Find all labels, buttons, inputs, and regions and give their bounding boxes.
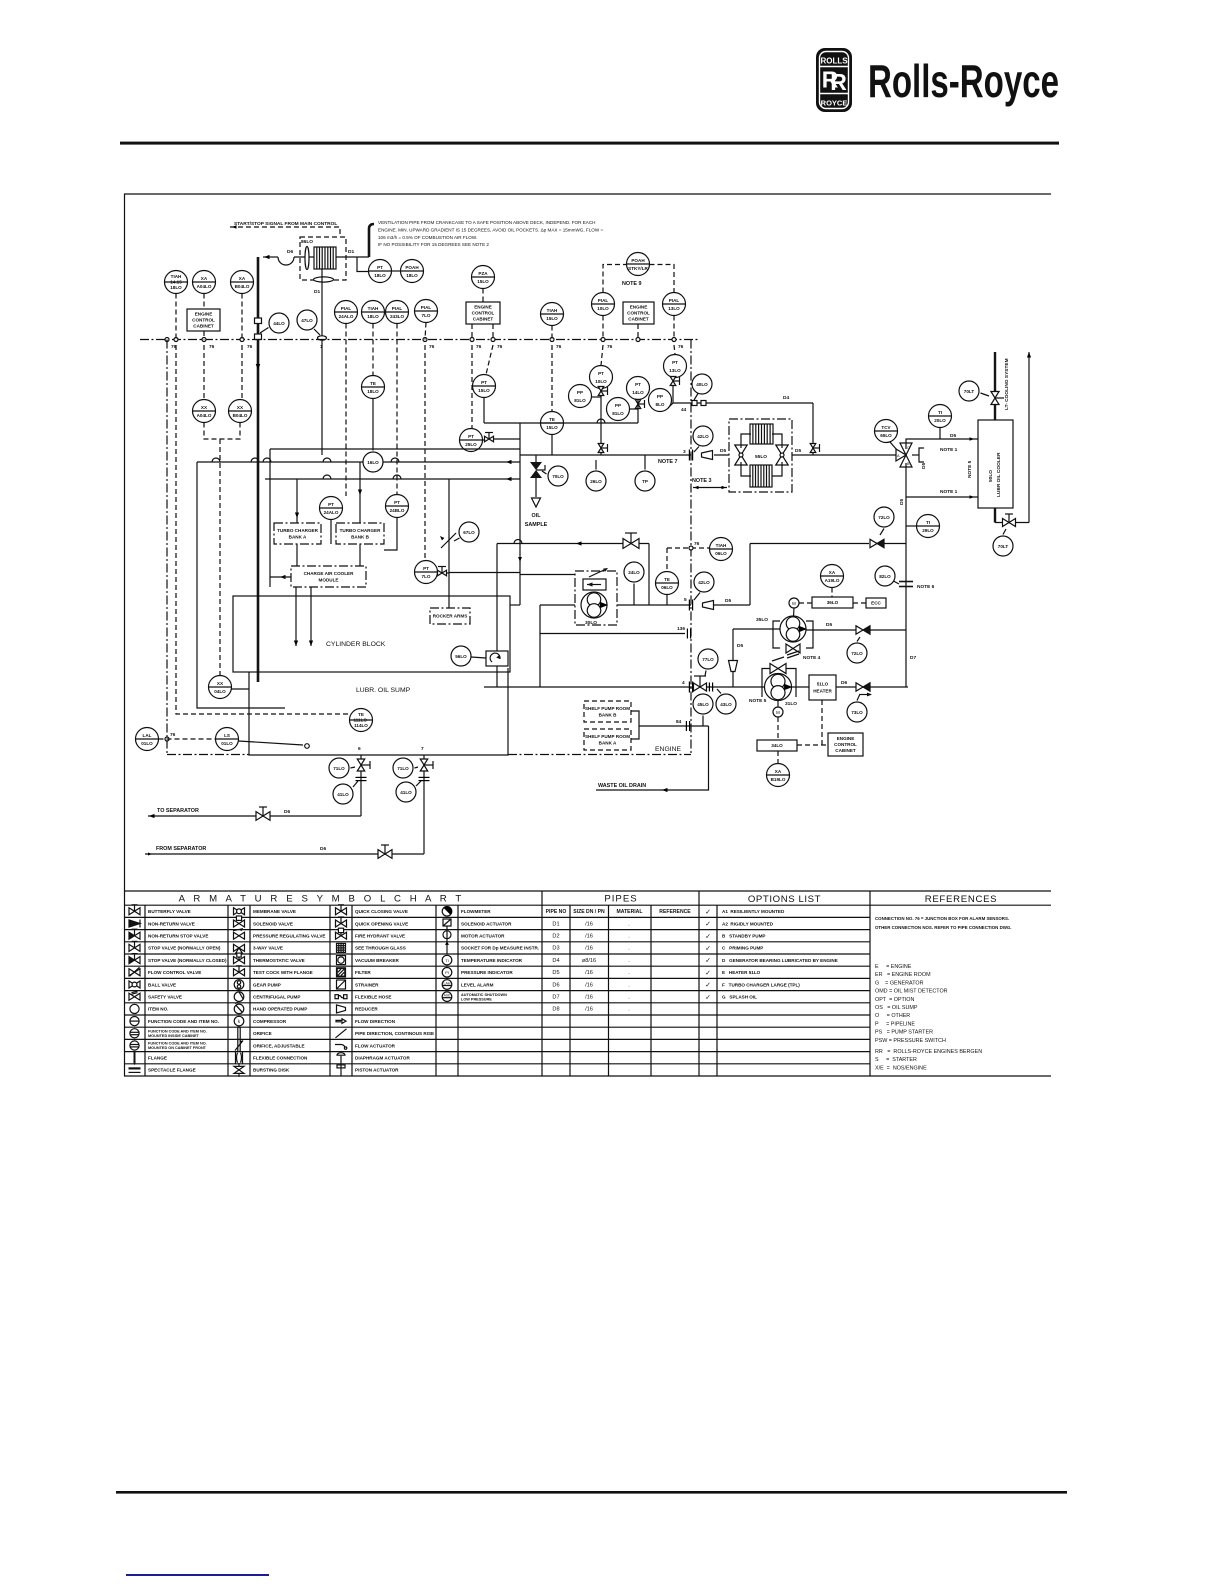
svg-text:BANK B: BANK B bbox=[351, 534, 370, 539]
main supply line bbox=[520, 454, 691, 456]
svg-text:TCV: TCV bbox=[881, 425, 891, 430]
engine boundary bottom right bbox=[508, 754, 691, 756]
instrument item 77LO bbox=[698, 649, 718, 669]
valve6 stem bbox=[361, 764, 370, 766]
svg-text:CYLINDER BLOCK: CYLINDER BLOCK bbox=[326, 641, 386, 648]
svg-text:CONTROL: CONTROL bbox=[834, 742, 857, 747]
svg-text:C PRIMING PUMP: C PRIMING PUMP bbox=[722, 946, 763, 951]
instrument item 45LO bbox=[693, 694, 713, 714]
svg-text:76: 76 bbox=[170, 732, 176, 738]
24LO stub bbox=[633, 584, 635, 606]
svg-text:STRAINER: STRAINER bbox=[355, 982, 379, 987]
40LO leader bbox=[694, 394, 698, 401]
34LO to cabinet dashed bbox=[797, 744, 828, 746]
PT10 drop bbox=[600, 396, 602, 456]
pipe crossing manifold2 jump b bbox=[393, 475, 401, 479]
svg-text:OMD = OIL MIST DETECTOR: OMD = OIL MIST DETECTOR bbox=[875, 989, 948, 995]
instrument XA A19LO bbox=[821, 565, 844, 588]
PT13 dashed bbox=[674, 345, 675, 355]
charge air feed drop bbox=[269, 449, 271, 587]
svg-text:36LO: 36LO bbox=[827, 600, 839, 605]
cooler drain run bbox=[995, 522, 1029, 524]
instrument TI 70LT top bbox=[959, 381, 979, 401]
connection node junction 76 k bbox=[672, 338, 676, 342]
standby suction top run bbox=[750, 543, 869, 545]
svg-text:D5: D5 bbox=[826, 622, 832, 628]
instrument item 43LO bbox=[716, 694, 736, 714]
valve 55LO outlet valve bbox=[776, 445, 788, 465]
82LO leader bbox=[894, 581, 900, 584]
svg-text:ROCKER ARMS: ROCKER ARMS bbox=[433, 614, 468, 619]
svg-text:START/STOP SIGNAL FROM MAIN CO: START/STOP SIGNAL FROM MAIN CONTROL bbox=[234, 221, 337, 227]
55LO top loop a bbox=[741, 434, 751, 448]
svg-text:D6: D6 bbox=[552, 982, 559, 988]
svg-text:ITEM NO.: ITEM NO. bbox=[148, 1007, 168, 1012]
svg-text:106 m3/h = 0.5% OF COMBUSTION: 106 m3/h = 0.5% OF COMBUSTION AIR FLOW. bbox=[378, 235, 477, 240]
motor symbol pump31 bbox=[773, 707, 783, 717]
svg-text:ENGINE: ENGINE bbox=[655, 746, 682, 753]
svg-text:PT: PT bbox=[635, 382, 641, 387]
three-way valve TCV 65LO bbox=[896, 443, 912, 467]
line to pump35 riser bbox=[714, 604, 750, 606]
pipe crossing return jump bbox=[514, 540, 522, 544]
svg-text:PT: PT bbox=[328, 502, 334, 507]
svg-text:7: 7 bbox=[421, 746, 424, 752]
svg-text:/16: /16 bbox=[585, 921, 593, 927]
svg-text:F TURBO CHARGER LARGE (TPL): F TURBO CHARGER LARGE (TPL) bbox=[722, 982, 800, 987]
flange boundary connector 136 bbox=[687, 629, 690, 639]
svg-text:LOW PRESSURE: LOW PRESSURE bbox=[461, 997, 492, 1001]
sensor rail bbox=[484, 422, 638, 424]
pipe crossing PT10 crossing bbox=[597, 419, 605, 423]
70LO leader bbox=[542, 471, 547, 474]
pump35 relief valve bbox=[786, 644, 800, 658]
svg-text:PZA: PZA bbox=[478, 271, 488, 276]
arrow note3 arrow right bbox=[722, 486, 727, 489]
svg-text:06LO: 06LO bbox=[715, 551, 727, 556]
svg-text:REFERENCE: REFERENCE bbox=[659, 909, 691, 915]
svg-text:CABINET: CABINET bbox=[628, 317, 649, 322]
svg-text:MATERIAL: MATERIAL bbox=[617, 909, 643, 915]
instrument item 44LO bbox=[269, 313, 289, 333]
svg-text:D6: D6 bbox=[320, 846, 326, 852]
svg-text:✓: ✓ bbox=[705, 921, 711, 928]
PIAL10 drop bbox=[602, 316, 604, 340]
svg-text:POAH: POAH bbox=[405, 265, 419, 270]
svg-text:PIAL: PIAL bbox=[392, 306, 403, 311]
77LO leader bbox=[705, 671, 706, 677]
TP stub bbox=[644, 455, 646, 470]
connection node junction 76 a bbox=[165, 338, 169, 342]
instrument XA B19LO bbox=[767, 764, 790, 787]
svg-text:CONNECTION NO. 76 = JUNCTI: CONNECTION NO. 76 = JUNCTION BOX FOR ALA… bbox=[875, 916, 1009, 921]
motor dashed link bbox=[799, 602, 812, 604]
priming pump module bbox=[575, 571, 617, 625]
svg-text:13LO: 13LO bbox=[669, 368, 681, 373]
valve6 stem bar bbox=[369, 761, 371, 769]
instrument POAH 18LO bbox=[401, 260, 424, 283]
svg-text:TP: TP bbox=[642, 479, 648, 484]
valve PT7 test cock bbox=[438, 567, 447, 576]
instrument PT 24BLO bbox=[386, 495, 409, 518]
svg-text:IF NO POSSIBILITY FOR 15 DEGR: IF NO POSSIBILITY FOR 15 DEGREES SEE NOT… bbox=[378, 242, 489, 247]
PT25 link bbox=[483, 439, 485, 441]
PT15 dashed bbox=[486, 345, 493, 375]
PIAL24A dashed drop bbox=[345, 324, 347, 497]
connection node junction 76 g bbox=[491, 338, 495, 342]
svg-text:✓: ✓ bbox=[705, 958, 711, 965]
svg-text:LUBR OIL COOLER: LUBR OIL COOLER bbox=[996, 452, 1002, 497]
svg-text:M: M bbox=[792, 601, 796, 606]
Rolls-Royce badge logo bbox=[816, 48, 852, 112]
svg-text:01LO: 01LO bbox=[141, 741, 153, 746]
arrow note3 arrow left bbox=[694, 486, 699, 489]
cooler top pipe thick bbox=[994, 352, 996, 392]
svg-text:O = OTHER: O = OTHER bbox=[875, 1013, 910, 1019]
arrow downcomer arrow bbox=[256, 364, 261, 370]
svg-text:A1 RESILIENTLY MOUNTED: A1 RESILIENTLY MOUNTED bbox=[722, 909, 785, 914]
71LO b leader bbox=[415, 767, 419, 768]
table outer top line bbox=[124, 890, 1051, 892]
TCV top out bbox=[906, 439, 978, 449]
svg-text:86LO: 86LO bbox=[301, 239, 313, 245]
73LO leader bbox=[857, 694, 860, 701]
arrow cac feed arrow bbox=[280, 575, 286, 579]
instrument item 42LO b bbox=[694, 572, 714, 592]
svg-text:NOTE 9: NOTE 9 bbox=[622, 281, 641, 287]
heat exchanger element crankcase breather element 86LO bbox=[314, 247, 336, 269]
instrument item 24LO bbox=[624, 562, 644, 582]
svg-text:/16: /16 bbox=[585, 970, 593, 976]
TIAH06 dashed bbox=[667, 547, 710, 549]
svg-text:PT: PT bbox=[394, 500, 400, 505]
svg-text:BANK B: BANK B bbox=[599, 712, 618, 717]
svg-text:POAH: POAH bbox=[631, 258, 645, 263]
return line mid bbox=[497, 543, 649, 545]
svg-text:ENGINE: ENGINE bbox=[837, 736, 855, 741]
43LO leader bbox=[717, 689, 721, 694]
TE15 dashed bbox=[551, 345, 553, 412]
svg-text:BANK A: BANK A bbox=[599, 740, 617, 745]
svg-text:/16: /16 bbox=[585, 946, 593, 952]
svg-text:CHARGE AIR COOLER: CHARGE AIR COOLER bbox=[304, 571, 355, 576]
pump35 riser bbox=[749, 544, 751, 606]
pump35 frame r bbox=[806, 621, 813, 648]
svg-text:01LO: 01LO bbox=[221, 741, 233, 746]
svg-text:ø8/16: ø8/16 bbox=[582, 958, 596, 964]
pump31 to 34LO dashed bbox=[777, 717, 779, 740]
svg-text:FIRE HYDRANT VALVE: FIRE HYDRANT VALVE bbox=[355, 934, 405, 939]
to separator line bbox=[148, 815, 361, 817]
svg-text:C: C bbox=[907, 446, 910, 450]
check valve heater check bbox=[856, 683, 870, 691]
thermostatic valve module 55LO bbox=[729, 419, 792, 492]
svg-text:TO SEPARATOR: TO SEPARATOR bbox=[157, 808, 199, 814]
svg-text:82LO: 82LO bbox=[879, 574, 891, 579]
svg-text:PIPE NO: PIPE NO bbox=[546, 909, 567, 915]
svg-text:✓: ✓ bbox=[705, 970, 711, 977]
svg-text:BANK A: BANK A bbox=[289, 534, 307, 539]
svg-text:WASTE OIL DRAIN: WASTE OIL DRAIN bbox=[598, 783, 646, 789]
47LO leader bbox=[314, 329, 320, 335]
56LO down to sump bbox=[496, 666, 498, 687]
instrument item 73LO bbox=[847, 702, 867, 722]
reducer reducer 5 bbox=[703, 601, 714, 610]
svg-text:PSW = PRESSURE SWITCH: PSW = PRESSURE SWITCH bbox=[875, 1038, 946, 1044]
TIAH long drop to TE111 bbox=[176, 345, 349, 714]
svg-text:D2: D2 bbox=[552, 934, 559, 940]
return to main bbox=[884, 543, 906, 545]
svg-text:25LO: 25LO bbox=[465, 442, 477, 447]
PT7 link bbox=[438, 572, 450, 574]
34LO to XA dashed bbox=[777, 751, 779, 764]
instrument item 71LO b bbox=[393, 758, 413, 778]
line 136 bbox=[540, 633, 685, 635]
instrument PT 10LO bbox=[590, 366, 613, 389]
reducer reducer 3 bbox=[702, 451, 713, 460]
return manifold lower bbox=[265, 478, 520, 480]
regulator spill line bbox=[520, 575, 612, 580]
flange boundary connector 5 bbox=[689, 600, 692, 611]
orifice flange 44 b bbox=[701, 401, 706, 406]
charge air cooler module bbox=[291, 566, 366, 587]
TE06 dashed up bbox=[666, 548, 668, 572]
svg-text:70LO: 70LO bbox=[552, 474, 564, 479]
svg-text:D5: D5 bbox=[950, 433, 956, 439]
throttle bar bbox=[625, 532, 637, 534]
PT25 to box bbox=[494, 438, 521, 440]
XA A drop bbox=[203, 294, 205, 310]
svg-text:31LO: 31LO bbox=[785, 701, 797, 707]
capped test connection bbox=[919, 448, 924, 462]
svg-text:15LO: 15LO bbox=[546, 425, 558, 430]
instrument item 42LO bbox=[693, 426, 713, 446]
svg-text:THERMOSTATIC VALVE: THERMOSTATIC VALVE bbox=[253, 958, 305, 963]
instrument item 41LO a bbox=[333, 784, 353, 804]
svg-text:PI: PI bbox=[445, 970, 449, 975]
svg-text:TE: TE bbox=[549, 417, 555, 422]
svg-text:SOLENOID ACTUATOR: SOLENOID ACTUATOR bbox=[461, 921, 512, 926]
svg-text:24BLO: 24BLO bbox=[390, 508, 405, 513]
rocker arms feed bbox=[448, 479, 450, 608]
cac drain a bbox=[295, 587, 297, 646]
svg-text:NOTE 5: NOTE 5 bbox=[749, 698, 767, 704]
svg-text:TE: TE bbox=[358, 712, 364, 717]
instrument LS 01LO bbox=[216, 728, 239, 751]
rocker supply run bbox=[449, 572, 520, 574]
svg-text:136: 136 bbox=[677, 626, 685, 632]
svg-text:ASD: ASD bbox=[444, 994, 451, 998]
flange spectacle flange 6 bbox=[356, 777, 367, 780]
svg-text:BURSTING DISK: BURSTING DISK bbox=[253, 1068, 290, 1073]
rocker arms bbox=[430, 608, 470, 624]
svg-text:ENGINE: ENGINE bbox=[474, 305, 492, 310]
svg-text:VENTILATION PIPE FROM CRANKCAS: VENTILATION PIPE FROM CRANKCASE TO A SAF… bbox=[378, 220, 595, 225]
drain 6 pipe bbox=[360, 755, 362, 816]
svg-text:47LO: 47LO bbox=[301, 318, 313, 323]
PP8 stub bbox=[668, 403, 673, 408]
instrument TIAH 06LO bbox=[710, 538, 733, 561]
svg-text:7LO: 7LO bbox=[422, 313, 431, 318]
block edge tie bbox=[510, 604, 520, 606]
return downpipe bbox=[197, 462, 285, 708]
svg-text:QUICK CLOSING VALVE: QUICK CLOSING VALVE bbox=[355, 909, 408, 914]
svg-text:NOTE 1: NOTE 1 bbox=[940, 447, 958, 453]
svg-text:76: 76 bbox=[429, 344, 435, 350]
turboA feed bbox=[296, 479, 298, 523]
footer link line bbox=[126, 1574, 269, 1576]
pump35 check out bbox=[870, 629, 906, 631]
svg-text:P = PIPELINE: P = PIPELINE bbox=[875, 1021, 915, 1027]
svg-text:FLEXIBLE CONNECTION: FLEXIBLE CONNECTION bbox=[253, 1056, 308, 1061]
70LT top leader bbox=[981, 393, 990, 396]
svg-text:06LO: 06LO bbox=[661, 585, 673, 590]
svg-text:15LO: 15LO bbox=[546, 316, 558, 321]
41LO a leader bbox=[353, 781, 358, 787]
svg-text:NOTE 6: NOTE 6 bbox=[917, 584, 935, 590]
pipe crossing manifold2 jump a bbox=[323, 475, 331, 479]
svg-text:111LO-: 111LO- bbox=[353, 717, 369, 722]
svg-text:PP: PP bbox=[657, 394, 663, 399]
XX04 link bbox=[232, 688, 250, 690]
svg-text:A19LO: A19LO bbox=[825, 578, 840, 583]
svg-text:TIAH: TIAH bbox=[547, 308, 558, 313]
valve7 stem bbox=[424, 764, 433, 766]
valve separator suction valve bbox=[256, 807, 270, 820]
svg-text:41LO: 41LO bbox=[400, 790, 412, 795]
instrument TE 06LO bbox=[656, 572, 679, 595]
svg-text:GEAR PUMP: GEAR PUMP bbox=[253, 982, 281, 987]
svg-text:NOTE 5: NOTE 5 bbox=[967, 460, 973, 478]
vent pipe left segment bbox=[263, 256, 278, 258]
TIAH drop bbox=[175, 294, 177, 340]
pipe crossing manifold1 jump b bbox=[251, 458, 259, 462]
TCV bottom run bbox=[905, 463, 907, 687]
svg-text:PRESSURE INDICATOR: PRESSURE INDICATOR bbox=[461, 970, 513, 975]
55LO to TCV bbox=[792, 454, 898, 456]
72LO b leader bbox=[857, 637, 860, 642]
valve7 stem bar bbox=[432, 761, 434, 769]
svg-text:NOTE 7: NOTE 7 bbox=[658, 459, 677, 465]
svg-text:114LO: 114LO bbox=[354, 723, 368, 728]
svg-text:TI: TI bbox=[926, 520, 930, 525]
level switch float link bbox=[239, 741, 310, 748]
starter 36LO bbox=[812, 597, 853, 608]
heat exchanger element 55LO element bottom bbox=[750, 465, 772, 487]
instrument TIAH 18LO bbox=[362, 301, 385, 324]
vent drain line D1 bbox=[321, 269, 323, 455]
svg-text:D5: D5 bbox=[921, 463, 927, 469]
svg-text:81LO: 81LO bbox=[612, 411, 624, 416]
svg-text:✓: ✓ bbox=[705, 994, 711, 1001]
svg-text:34LO: 34LO bbox=[771, 743, 783, 748]
arrow vent flow arrow bbox=[264, 255, 270, 259]
drawing frame top border bbox=[124, 193, 1051, 195]
svg-text:SAFETY VALVE: SAFETY VALVE bbox=[148, 995, 182, 1000]
56LO leader bbox=[471, 657, 486, 658]
connection node junction 76 m bbox=[689, 546, 693, 550]
svg-text:ROLLS: ROLLS bbox=[820, 57, 848, 66]
svg-text:24ALO: 24ALO bbox=[324, 510, 339, 515]
svg-text:D6: D6 bbox=[284, 809, 290, 815]
engine boundary vertical bbox=[690, 340, 692, 755]
svg-text:TURBO CHARGER: TURBO CHARGER bbox=[277, 528, 319, 533]
svg-text:73LO: 73LO bbox=[851, 710, 863, 715]
svg-text:50LO: 50LO bbox=[988, 470, 994, 482]
vent silencer oval bbox=[314, 277, 334, 282]
table vertical lines bbox=[145, 891, 870, 1076]
drawing frame left border bbox=[124, 194, 126, 1076]
pump stand-by pump 35LO bbox=[780, 616, 807, 642]
instrument item 67LO bbox=[459, 522, 479, 542]
vent pipe to PT18 bbox=[357, 257, 369, 272]
vent pipe to breather bbox=[294, 256, 314, 258]
arrow rocker supply arrow bbox=[518, 557, 522, 562]
engine boundary bottom left bbox=[167, 754, 249, 756]
svg-text:FUNCTION CODE AND ITEM NO.: FUNCTION CODE AND ITEM NO. bbox=[148, 1019, 219, 1024]
cabinet1 drop bbox=[203, 331, 205, 340]
svg-text:PT: PT bbox=[672, 360, 678, 365]
POAH dashed right leg bbox=[650, 265, 675, 293]
svg-text:TURBO CHARGER: TURBO CHARGER bbox=[340, 528, 382, 533]
svg-text:D5: D5 bbox=[795, 448, 801, 454]
svg-text:SHELF PUMP ROOM: SHELF PUMP ROOM bbox=[585, 706, 630, 711]
svg-text:OIL: OIL bbox=[532, 513, 542, 519]
svg-text:CONTROL: CONTROL bbox=[472, 311, 495, 316]
LT valve stem bbox=[995, 397, 1004, 399]
svg-text:D8: D8 bbox=[552, 1007, 559, 1013]
pump35 suction pipe bbox=[733, 628, 780, 630]
TI20 stub bbox=[939, 428, 941, 440]
cac drain b bbox=[310, 587, 312, 646]
svg-text:76: 76 bbox=[607, 344, 613, 350]
arrow from separator arrow bbox=[148, 852, 152, 855]
svg-text:LAH: LAH bbox=[444, 982, 451, 986]
pump35 frame bbox=[773, 621, 780, 648]
svg-text:D5: D5 bbox=[737, 643, 743, 649]
svg-text:43LO: 43LO bbox=[720, 702, 732, 707]
valve PT14 test cock bbox=[635, 400, 644, 409]
svg-text:D7: D7 bbox=[910, 655, 916, 661]
armature symbol chart cells bbox=[129, 905, 540, 1077]
svg-text:TIAH: TIAH bbox=[716, 543, 727, 548]
svg-text:70LT: 70LT bbox=[998, 544, 1009, 549]
svg-text:76: 76 bbox=[678, 344, 684, 350]
svg-text:X/E = NOS/ENGINE: X/E = NOS/ENGINE bbox=[875, 1065, 927, 1071]
svg-text:REDUCER: REDUCER bbox=[355, 1007, 378, 1012]
sample drop b bbox=[535, 478, 537, 497]
instrument XA A04LO bbox=[193, 271, 216, 294]
svg-text:PP: PP bbox=[577, 390, 583, 395]
svg-text:SHELF PUMP ROOM: SHELF PUMP ROOM bbox=[585, 734, 630, 739]
footer rule bbox=[116, 1491, 1067, 1494]
svg-text:✓: ✓ bbox=[705, 933, 711, 940]
valve PT10 test cock bbox=[598, 387, 607, 396]
svg-text:A04LO: A04LO bbox=[197, 413, 212, 418]
instrument PP 81LO a bbox=[569, 385, 592, 408]
svg-text:SOCKET FOR Dp MEASURE INSTR.: SOCKET FOR Dp MEASURE INSTR. bbox=[461, 946, 539, 951]
svg-text:OTHER CONNECTION NOS. REFER: OTHER CONNECTION NOS. REFER TO PIPE CONN… bbox=[875, 925, 1012, 930]
pump30 suction bbox=[540, 604, 581, 606]
valve D4 isolation valve bbox=[810, 444, 819, 453]
svg-text:FILTER: FILTER bbox=[355, 970, 371, 975]
svg-text:B04LO: B04LO bbox=[233, 413, 248, 418]
instrument item 72LO top bbox=[874, 507, 894, 527]
arrow turboB arrow bbox=[358, 490, 362, 496]
arrow manifold2 arrow bbox=[506, 477, 512, 481]
svg-text:LS: LS bbox=[224, 733, 230, 738]
instrument item 47LO bbox=[297, 310, 317, 330]
